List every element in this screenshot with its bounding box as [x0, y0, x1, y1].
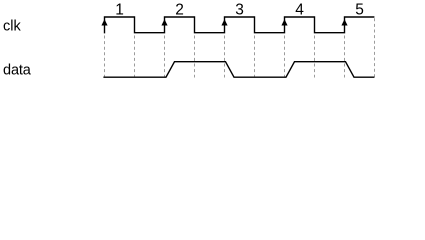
dashed gridline at clock edge 7 (x=284.5)	[284, 36, 286, 78]
rising edge arrow 1	[101, 19, 107, 25]
rising edge arrow 3	[221, 19, 227, 25]
dashed gridline at clock edge 6 (x=254.5)	[254, 36, 256, 78]
rising edge arrow 2	[161, 19, 167, 25]
svg-text:2: 2	[175, 1, 184, 18]
svg-text:3: 3	[235, 1, 244, 18]
svg-text:4: 4	[295, 1, 304, 18]
dashed gridline at clock edge 2 (x=134.5)	[134, 36, 136, 78]
svg-text:clk: clk	[3, 19, 21, 35]
svg-text:data: data	[3, 62, 32, 78]
dashed gridline at clock edge 4 (x=194.5)	[194, 36, 196, 78]
dashed gridline at clock edge 8 (x=314.5)	[314, 36, 316, 78]
dashed gridline at clock edge 1 (x=104.5)	[104, 36, 106, 78]
dashed gridline at clock edge 5 (x=224.5)	[224, 36, 226, 78]
rising edge arrow 5	[341, 19, 347, 25]
clk waveform (5 cycles, high y=17, low y=32.7)	[105, 17, 375, 33]
dashed gridline at clock edge 3 (x=164.5)	[164, 36, 166, 78]
rising edge arrow 4	[281, 19, 287, 25]
svg-text:5: 5	[355, 1, 364, 18]
svg-text:1: 1	[115, 1, 124, 18]
dashed gridline at waveform end (x=374.5)	[374, 18, 376, 77]
dashed gridline at clock edge 9 (x=344.5)	[344, 36, 346, 78]
data waveform (low y=77.2, high y=61.7, slanted transitions after clock edges 2..5)	[103, 62, 374, 77]
